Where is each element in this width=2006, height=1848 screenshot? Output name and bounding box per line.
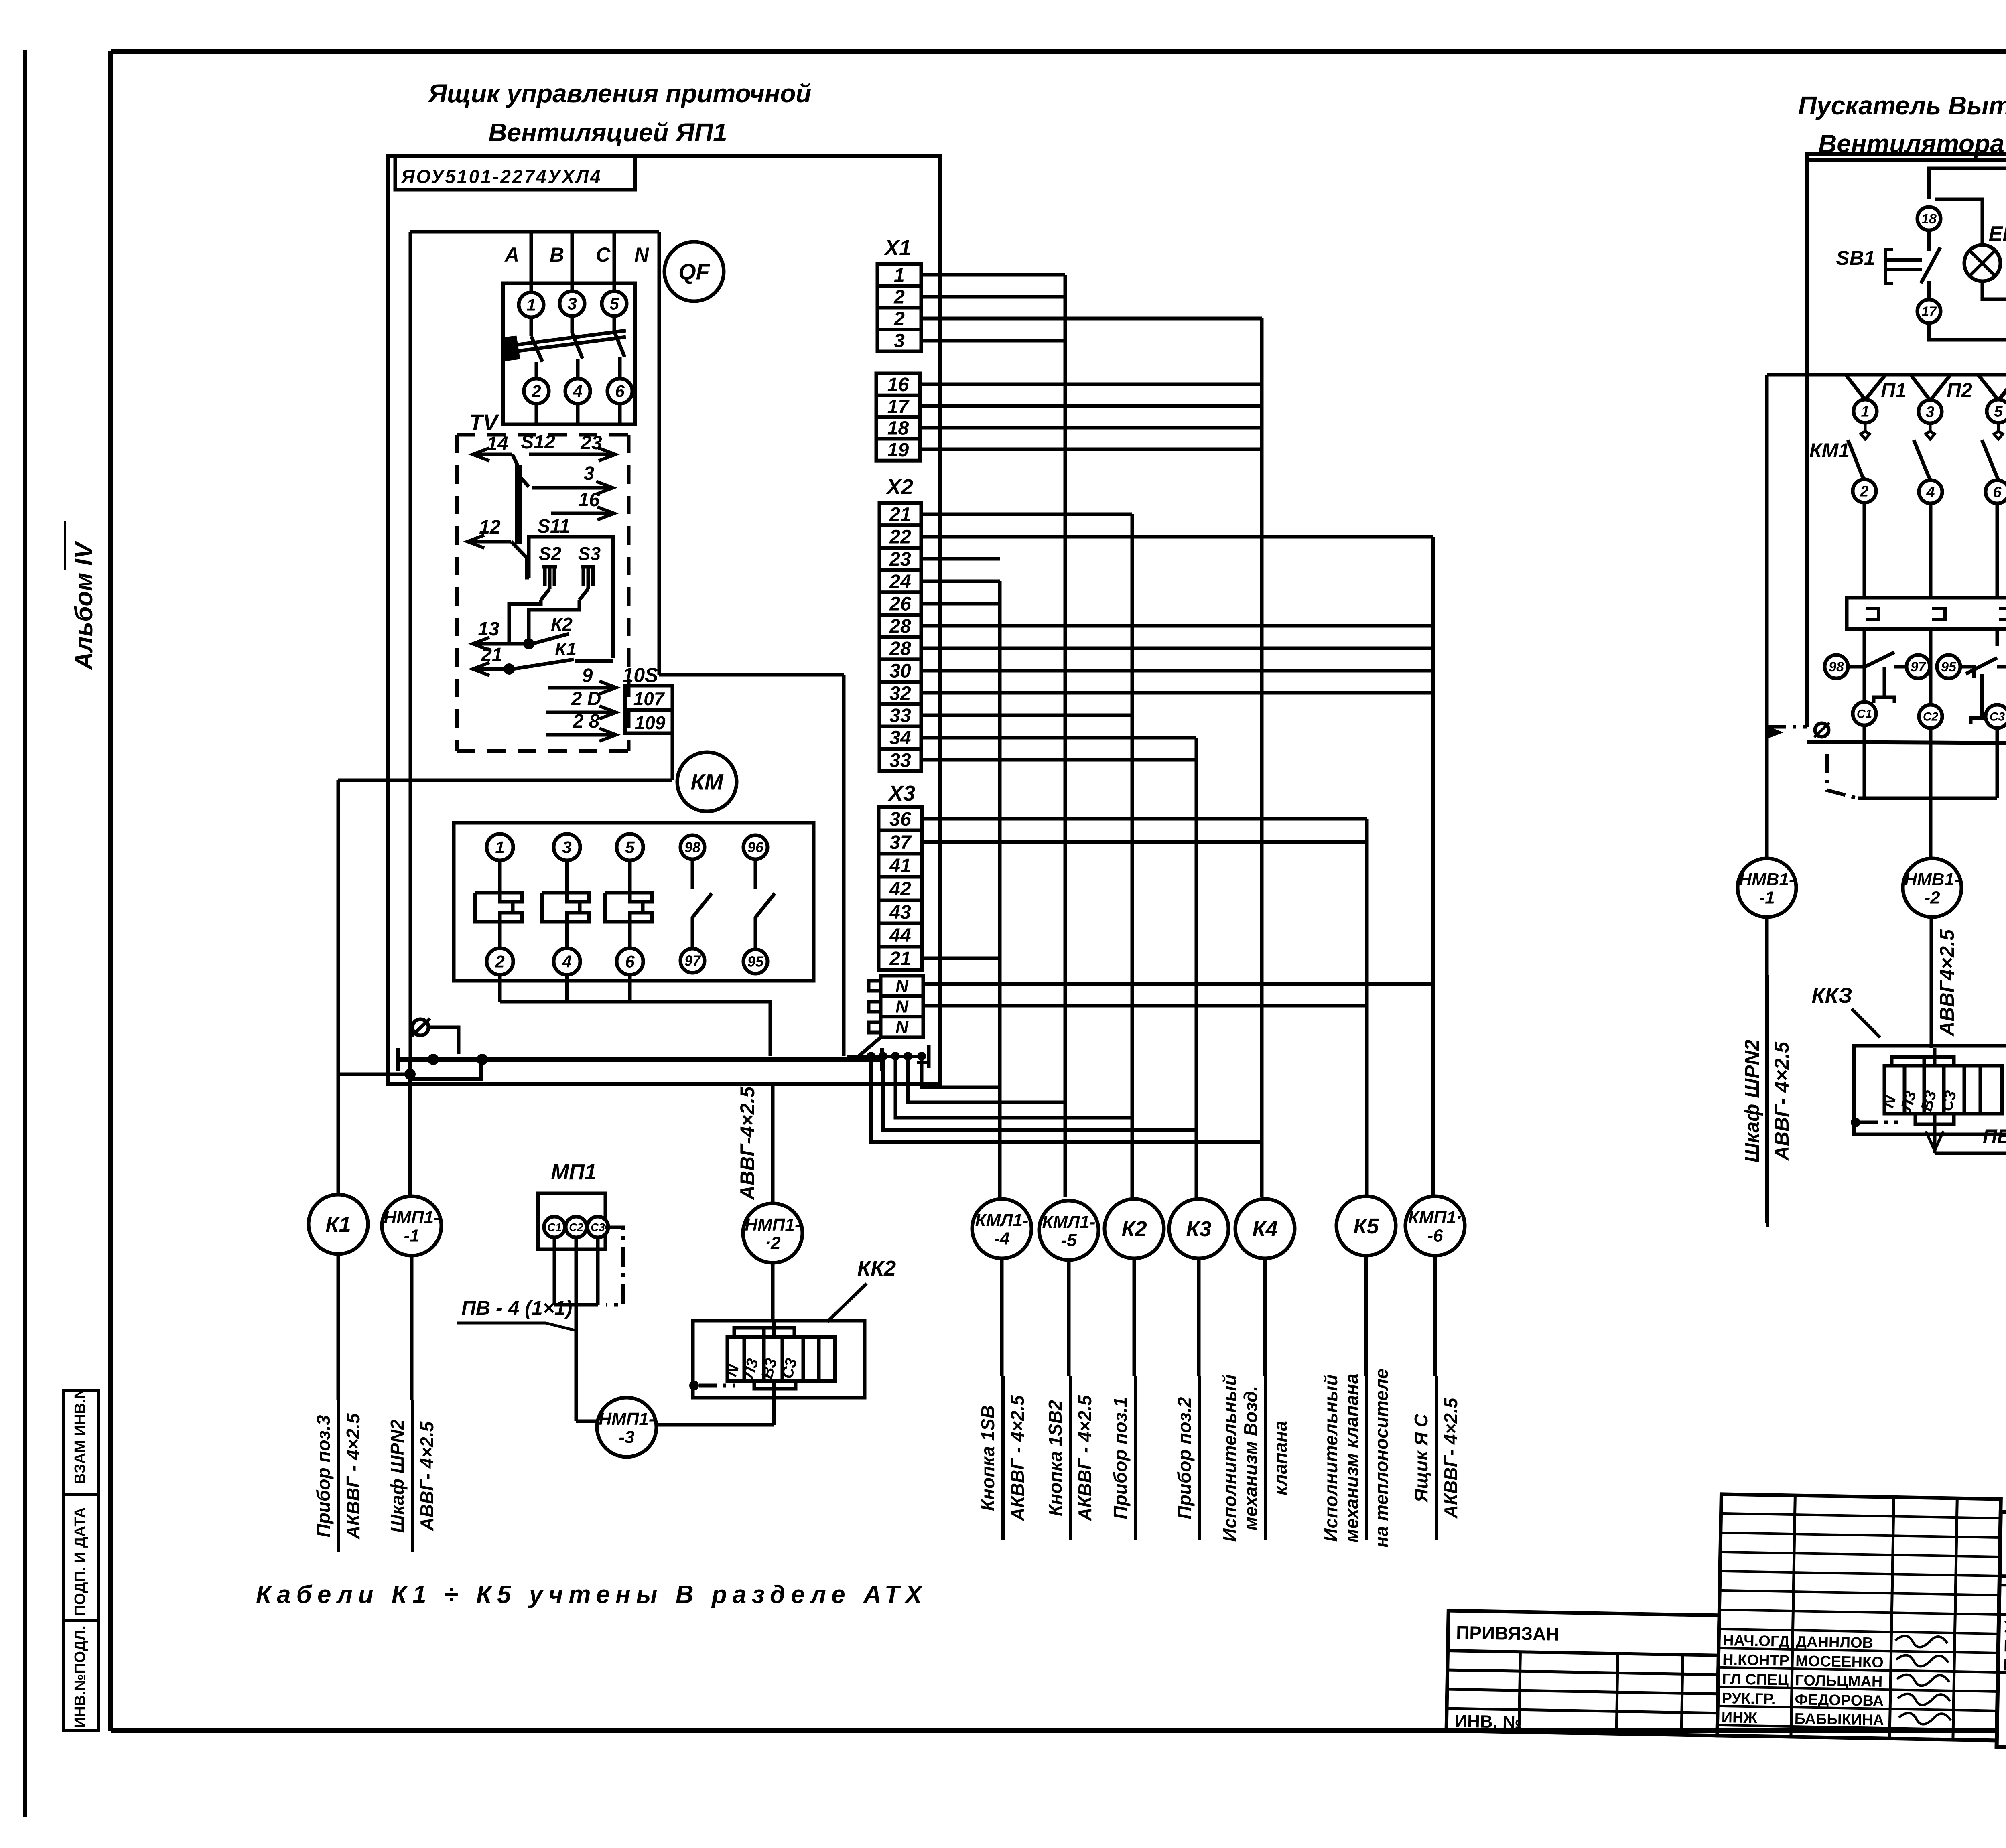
motor terminal C1	[1853, 702, 1876, 725]
svg-text:клапана: клапана	[1270, 1421, 1291, 1495]
cable KML1-5	[1039, 1201, 1098, 1260]
lamp EL	[1935, 199, 1982, 245]
stamp main box	[1997, 1512, 2006, 1755]
svg-text:17: 17	[1921, 304, 1937, 319]
cable label Прибор поз.3/АКВВГ - 4×2.5	[337, 1400, 340, 1552]
fan wire 2	[908, 1058, 1065, 1102]
cable column KMP1-6	[1431, 537, 1435, 1197]
svg-text:S2: S2	[539, 543, 562, 564]
svg-text:5: 5	[625, 838, 635, 857]
QF feeder wires	[530, 232, 533, 292]
svg-text:N: N	[895, 1018, 909, 1037]
svg-text:10S: 10S	[623, 664, 658, 686]
P3 V	[1978, 375, 1998, 400]
connector dots row	[847, 1055, 923, 1058]
inner compartment right edge	[658, 232, 661, 675]
inner top border	[1807, 158, 2006, 162]
svg-text:2: 2	[495, 952, 504, 971]
terminal block X1 lower	[876, 373, 920, 395]
svg-text:36: 36	[889, 809, 911, 830]
svg-text:5: 5	[1994, 403, 2003, 420]
KM1 contact col2	[1926, 423, 1935, 439]
neutral bus with T ends	[396, 1048, 400, 1071]
cable KMP1-6	[1405, 1196, 1465, 1256]
wire X2-30	[921, 669, 1433, 673]
fan wire 1	[922, 1058, 1000, 1087]
cable label Шкаф ШРN2/АВВГ- 4×2.5	[1766, 975, 1769, 1227]
svg-text:28: 28	[889, 638, 911, 659]
wire X1-17	[920, 404, 1262, 408]
svg-text:Прибор поз.3: Прибор поз.3	[313, 1415, 334, 1537]
switch S12 bar	[512, 454, 518, 465]
svg-text:-2: -2	[1924, 888, 1940, 908]
overload terminal 98	[1825, 655, 1848, 678]
KM output wires to connector	[498, 975, 502, 1002]
svg-text:К3: К3	[1186, 1217, 1211, 1241]
svg-text:КМЛ1-: КМЛ1-	[975, 1211, 1028, 1230]
svg-text:ПРИВЯЗАН: ПРИВЯЗАН	[1456, 1622, 1559, 1644]
wire X2-24	[921, 580, 1000, 583]
svg-text:ИНВ.№ПОДЛ.: ИНВ.№ПОДЛ.	[72, 1625, 89, 1728]
wire N block to connector	[859, 1037, 881, 1056]
svg-text:2: 2	[531, 382, 541, 401]
svg-text:-1: -1	[404, 1226, 419, 1246]
svg-text:С2: С2	[1923, 710, 1939, 724]
wire K1 to NMP1-1 link	[338, 1073, 410, 1076]
svg-text:3: 3	[562, 838, 571, 857]
svg-text:SB1: SB1	[1836, 247, 1875, 269]
wire X3-36	[922, 817, 1367, 821]
wire jog under bus	[410, 1061, 481, 1079]
svg-text:4: 4	[573, 382, 582, 401]
overload heater col3	[1966, 658, 1997, 674]
S11 box	[529, 537, 613, 658]
svg-text:1: 1	[495, 838, 504, 857]
P row bus	[1767, 373, 2006, 377]
wire X3-37	[922, 840, 1367, 844]
wire 18 to SB1	[1927, 230, 1931, 251]
control loop top wire	[1929, 168, 2006, 199]
svg-text:КМ: КМ	[690, 769, 723, 795]
cable K3	[1169, 1199, 1228, 1258]
wire X2-32	[921, 691, 1433, 695]
svg-text:П1: П1	[1881, 379, 1907, 402]
svg-text:НМП1-: НМП1-	[745, 1215, 800, 1235]
wire X2-28a	[921, 624, 1433, 628]
cable KML1-4	[972, 1199, 1031, 1258]
cable label Шкаф ШРN2/АВВГ- 4×2.5	[411, 1400, 414, 1552]
KM aux circle 95	[743, 949, 767, 974]
wire step under S2	[509, 600, 541, 644]
svg-text:26: 26	[889, 593, 911, 615]
svg-text:ДАННЛОВ: ДАННЛОВ	[1796, 1633, 1874, 1651]
svg-text:ВЗАМ ИНВ.N: ВЗАМ ИНВ.N	[72, 1388, 89, 1484]
svg-text:21: 21	[481, 644, 502, 665]
wire PV-4 bottom	[1935, 1152, 2006, 1155]
svg-text:Шкаф ШРN2: Шкаф ШРN2	[1741, 1039, 1763, 1162]
cable K1	[309, 1195, 368, 1254]
wire NMP1-2 drop	[771, 1084, 775, 1204]
wire X2-33b	[921, 758, 1196, 762]
wire X2-23	[921, 557, 1000, 561]
contactor KM box	[454, 823, 814, 981]
inner compartment top edge	[410, 230, 659, 234]
wire arrow 23 right	[529, 453, 615, 456]
svg-text:КМП1·: КМП1·	[1408, 1208, 1462, 1227]
fan wire 4	[883, 1058, 1196, 1130]
svg-text:АВВГ4×2.5: АВВГ4×2.5	[1936, 929, 1958, 1037]
thermal relay KK3 box	[1854, 1046, 2006, 1134]
svg-text:НМВ1-: НМВ1-	[1904, 870, 1960, 889]
svg-text:БАБЫКИНА: БАБЫКИНА	[1794, 1710, 1884, 1729]
QF body box	[503, 283, 635, 424]
svg-text:TV: TV	[469, 410, 499, 435]
cable column K5	[1365, 819, 1369, 1197]
svg-text:МП1: МП1	[551, 1160, 597, 1184]
svg-text:Исполнительный: Исполнительный	[1219, 1375, 1240, 1542]
svg-text:Ящик управления приточной: Ящик управления приточной	[427, 79, 811, 108]
wire MP1-C2 down	[575, 1237, 578, 1421]
svg-text:19: 19	[887, 440, 909, 461]
svg-text:РУК.ГР.: РУК.ГР.	[1722, 1690, 1776, 1708]
wire arrow 14 left	[473, 453, 512, 456]
svg-text:К1: К1	[325, 1213, 351, 1237]
svg-text:16: 16	[887, 374, 909, 396]
svg-text:Прибор поз.1: Прибор поз.1	[1110, 1397, 1131, 1519]
wire X2-21	[921, 513, 1132, 516]
circuit breaker QF circle	[664, 242, 724, 301]
svg-text:X1: X1	[883, 236, 911, 260]
svg-text:6: 6	[615, 382, 625, 401]
svg-text:9: 9	[582, 665, 593, 686]
svg-text:С: С	[596, 243, 611, 266]
svg-text:АКВВГ- 4×2.5: АКВВГ- 4×2.5	[1440, 1397, 1461, 1519]
svg-text:ФЕДОРОВА: ФЕДОРОВА	[1795, 1691, 1884, 1710]
svg-text:33: 33	[889, 750, 911, 771]
svg-text:6: 6	[625, 952, 635, 971]
wire below KMP1-6	[1433, 1256, 1437, 1376]
overload terminal 97	[1907, 655, 1930, 678]
svg-text:К5: К5	[1353, 1214, 1379, 1238]
MP1 dash-dot	[605, 1227, 623, 1305]
sheet edge line left	[23, 50, 27, 1817]
inner compartment left edge	[409, 232, 412, 1059]
svg-text:41: 41	[889, 855, 911, 876]
wire 17 down to bottom loop	[1929, 323, 2006, 340]
svg-text:43: 43	[889, 902, 911, 923]
svg-text:К2: К2	[551, 614, 573, 635]
left stamp column boxes	[63, 1390, 98, 1731]
svg-text:МОСЕЕНКО: МОСЕЕНКО	[1795, 1653, 1884, 1671]
KM bottom circle 6	[617, 948, 643, 975]
wire X1-3	[921, 339, 1065, 343]
svg-text:X3: X3	[887, 781, 915, 805]
svg-text:1: 1	[1861, 403, 1869, 420]
wire X1-1	[921, 273, 1065, 277]
KMV1 main contact bar	[1847, 598, 2006, 629]
terminal block X3	[879, 807, 922, 830]
svg-text:4: 4	[562, 952, 571, 971]
QF pole circle 1	[519, 292, 544, 317]
svg-text:ЯОУ5101-2274УХЛ4: ЯОУ5101-2274УХЛ4	[401, 166, 602, 187]
svg-text:N: N	[895, 997, 909, 1016]
svg-text:ИНВ. №: ИНВ. №	[1454, 1711, 1523, 1732]
QF pole circle 2	[524, 379, 549, 404]
KK2 bottom tabs	[754, 1381, 796, 1389]
svg-text:НАЧ.ОГД: НАЧ.ОГД	[1723, 1632, 1790, 1650]
KM top circle 5	[617, 834, 643, 860]
svg-text:АВВГ- 4×2.5: АВВГ- 4×2.5	[1770, 1041, 1793, 1161]
wire compartment to KM column	[659, 673, 844, 677]
svg-text:34: 34	[889, 728, 911, 749]
wire NMV1-2 down	[1930, 917, 1933, 1048]
cable column KML1-4	[998, 581, 1002, 1197]
cable column K4	[1260, 318, 1264, 1197]
svg-text:Кнопка 1SВ: Кнопка 1SВ	[977, 1405, 998, 1511]
wire N2 right	[923, 1004, 1367, 1008]
cable NMV1-1 circle	[1738, 858, 1796, 917]
cable label Прибор поз.1/None	[1134, 1376, 1137, 1540]
wire from 109 block down	[671, 733, 674, 780]
svg-text:Шкаф ШРN2: Шкаф ШРN2	[387, 1419, 408, 1533]
svg-text:ККЗ: ККЗ	[1811, 984, 1852, 1008]
wire 109 row to K1 drop	[338, 779, 672, 782]
MP1 terminal C1	[544, 1217, 565, 1237]
QF pole circle 4	[565, 379, 590, 404]
svg-text:Н.КОНТР: Н.КОНТР	[1722, 1651, 1789, 1669]
thermal overload wires	[1863, 627, 1866, 702]
wire earth to bus	[428, 1027, 459, 1054]
KK3 through wire	[1933, 1048, 1937, 1066]
wire X2-34	[921, 736, 1196, 740]
wire X3-21	[922, 957, 1000, 960]
svg-text:Кабели К1 ÷ К5 учтены В ра: Кабели К1 ÷ К5 учтены В разделе АТХ	[256, 1581, 928, 1609]
wire below K3	[1197, 1258, 1201, 1376]
wire K1 cable drop	[337, 780, 340, 1195]
svg-text:S11: S11	[537, 516, 570, 537]
terminal block X1 upper	[877, 264, 921, 286]
svg-text:С1: С1	[547, 1221, 562, 1233]
svg-text:К1: К1	[555, 639, 577, 659]
svg-text:Прибор поз.2: Прибор поз.2	[1174, 1397, 1195, 1519]
svg-text:·2: ·2	[765, 1233, 781, 1253]
KK2 dash-dot	[689, 1381, 699, 1390]
svg-text:109: 109	[635, 712, 666, 733]
terminal 17	[1917, 300, 1941, 323]
svg-text:QF: QF	[678, 259, 711, 284]
fan wire 5	[871, 1058, 1262, 1142]
svg-text:2: 2	[893, 308, 905, 330]
MP1 underwires	[553, 1237, 556, 1305]
svg-text:107: 107	[633, 688, 665, 709]
svg-text:28: 28	[889, 616, 911, 637]
wire X1-16	[920, 383, 1262, 386]
contact terminal 4	[1919, 480, 1942, 503]
svg-text:АКВВГ - 4×2.5: АКВВГ - 4×2.5	[343, 1413, 363, 1540]
svg-text:АКВВГ - 4×2.5: АКВВГ - 4×2.5	[1007, 1395, 1028, 1521]
cable NMP1-3	[597, 1398, 656, 1457]
KM aux contact 98-97	[691, 859, 694, 889]
wire X1-18	[920, 426, 1262, 430]
N block side tabs	[869, 981, 881, 991]
svg-text:АВВГ-4×2.5: АВВГ-4×2.5	[736, 1086, 759, 1201]
wire below KML1-4	[1000, 1258, 1004, 1376]
phase wires to coil row	[1863, 503, 1866, 597]
svg-text:95: 95	[1941, 659, 1957, 675]
svg-text:23: 23	[580, 432, 602, 454]
KK2 cells	[727, 1337, 835, 1381]
svg-text:-1: -1	[1759, 888, 1775, 908]
KM bottom circle 2	[487, 948, 513, 975]
svg-text:Ящик Я С: Ящик Я С	[1411, 1414, 1431, 1503]
motor terminal C2	[1919, 705, 1942, 728]
svg-text:6: 6	[1993, 484, 2002, 501]
svg-text:П2: П2	[1947, 379, 1972, 402]
contact terminal 2	[1853, 479, 1876, 503]
cable label Кнопка 1SB2/АКВВГ - 4×2.5	[1069, 1376, 1072, 1540]
svg-text:В: В	[550, 243, 564, 266]
svg-text:ПОДП. И ДАТА: ПОДП. И ДАТА	[72, 1507, 89, 1616]
svg-text:-3: -3	[619, 1428, 634, 1447]
svg-text:на теплоносителе: на теплоносителе	[1371, 1369, 1392, 1548]
earth circle symbol	[412, 1019, 428, 1035]
svg-text:32: 32	[889, 683, 911, 704]
contact terminal 6	[1986, 480, 2006, 503]
cable label механизм Возд./клапана	[1264, 1376, 1267, 1540]
svg-text:КК2: КК2	[857, 1256, 896, 1280]
wire KK2 to NMP1-3	[656, 1423, 774, 1427]
svg-text:44: 44	[889, 925, 911, 946]
svg-text:Исполнительный: Исполнительный	[1320, 1375, 1341, 1542]
svg-text:30: 30	[889, 661, 911, 682]
wire X1-19	[920, 448, 1262, 451]
svg-text:НМВ1-: НМВ1-	[1739, 870, 1795, 889]
terminal block N block	[881, 976, 923, 996]
svg-text:14: 14	[487, 433, 508, 454]
svg-text:97: 97	[684, 953, 701, 969]
wire step under S3	[529, 600, 579, 644]
cable label Ящик Я С/АКВВГ- 4×2.5	[1435, 1376, 1438, 1540]
cable K2	[1105, 1199, 1164, 1258]
TV dashed box	[455, 435, 459, 751]
overload heater col1	[1864, 652, 1894, 667]
wire below K4	[1263, 1258, 1267, 1376]
svg-text:37: 37	[889, 832, 912, 853]
wire NMP1-1 cable drop	[408, 1059, 412, 1197]
svg-text:-4: -4	[994, 1229, 1009, 1249]
KM aux circle 97	[680, 949, 705, 973]
wire X1-2b	[921, 317, 1262, 321]
svg-text:42: 42	[889, 878, 911, 900]
terminal 18	[1917, 207, 1941, 230]
KM1 contact col1	[1861, 423, 1870, 439]
svg-text:2 D: 2 D	[571, 688, 601, 710]
KM main contact symbols	[500, 893, 513, 922]
cable label Кнопка 1SВ/АКВВГ - 4×2.5	[1001, 1376, 1005, 1540]
svg-text:3: 3	[584, 463, 595, 484]
dash-dot NMV1-1 corner	[1767, 725, 1807, 729]
svg-text:1: 1	[894, 265, 905, 286]
svg-text:N: N	[895, 976, 909, 996]
wire to NMP1-3	[576, 1420, 597, 1423]
svg-text:КМЛ1-: КМЛ1-	[1042, 1212, 1095, 1232]
svg-text:96: 96	[747, 839, 764, 856]
wire NMV1-1 cable column	[1765, 375, 1769, 859]
QF pole circle 6	[607, 379, 632, 404]
svg-text:X2: X2	[885, 475, 913, 499]
QF pole circle 3	[560, 291, 585, 316]
svg-text:С1: С1	[1857, 708, 1872, 721]
svg-text:5: 5	[609, 294, 619, 313]
diagonal 96 to P3	[1998, 323, 2006, 401]
svg-text:механизм Возд.: механизм Возд.	[1240, 1386, 1261, 1531]
QF pole circle 5	[602, 291, 627, 316]
fan wire 3	[895, 1058, 1132, 1118]
svg-text:21: 21	[889, 948, 911, 970]
svg-text:95: 95	[747, 953, 764, 970]
svg-text:2: 2	[893, 287, 905, 308]
svg-text:ИНЖ: ИНЖ	[1721, 1709, 1757, 1727]
svg-text:ГОЛЬЦМАН: ГОЛЬЦМАН	[1795, 1672, 1883, 1690]
svg-text:23: 23	[889, 549, 911, 570]
svg-text:К2: К2	[1121, 1217, 1147, 1241]
svg-text:С3: С3	[591, 1221, 605, 1233]
title block group	[1446, 1489, 2006, 1758]
motor feeder bottom wire	[1858, 797, 1997, 800]
svg-text:3: 3	[567, 294, 577, 313]
svg-text:С2: С2	[569, 1221, 583, 1233]
KM aux contact 96-95	[754, 859, 757, 889]
svg-text:22: 22	[889, 526, 911, 548]
overload terminal 95b	[1937, 655, 1960, 678]
motor MP1 box	[538, 1193, 605, 1249]
wire X2-33a	[921, 714, 1132, 717]
svg-text:N: N	[634, 243, 649, 266]
thermal relay KK2 box	[693, 1321, 865, 1398]
frame top	[111, 49, 2006, 54]
svg-text:18: 18	[887, 418, 909, 439]
terminal block X2	[879, 503, 921, 525]
cable NMP1-2	[743, 1203, 802, 1263]
wire below NMP1-1	[410, 1255, 414, 1400]
cable K4	[1235, 1199, 1295, 1258]
svg-text:-6: -6	[1427, 1226, 1443, 1246]
wire X2-26	[921, 602, 1000, 606]
KM1 contact col3	[1994, 423, 2003, 439]
QF blades and crossbar	[530, 317, 533, 336]
contact terminal P1-1	[1854, 400, 1877, 423]
svg-text:3: 3	[1926, 404, 1934, 420]
cable NMP1-1	[382, 1196, 441, 1256]
contact terminal P3-5	[1987, 400, 2006, 423]
cable column K2	[1131, 514, 1134, 1197]
cable K5	[1336, 1196, 1396, 1256]
KK3 dash-dot	[1851, 1118, 1860, 1127]
wire below KML1-5	[1067, 1260, 1071, 1376]
svg-text:АВВГ- 4×2.5: АВВГ- 4×2.5	[416, 1421, 437, 1531]
cable label механизм клапана/на теплоносителе	[1365, 1376, 1368, 1540]
svg-text:-5: -5	[1061, 1231, 1077, 1250]
svg-text:механизм клапана: механизм клапана	[1341, 1374, 1362, 1543]
contactor KM circle	[677, 752, 737, 811]
KK2 top tabs	[734, 1328, 794, 1337]
wire X2-28b	[921, 647, 1433, 650]
box YAP1	[388, 156, 940, 1084]
P2 V	[1911, 375, 1930, 400]
svg-text:18: 18	[1921, 211, 1937, 227]
svg-text:А: А	[504, 243, 519, 266]
wire below K2	[1133, 1258, 1136, 1376]
